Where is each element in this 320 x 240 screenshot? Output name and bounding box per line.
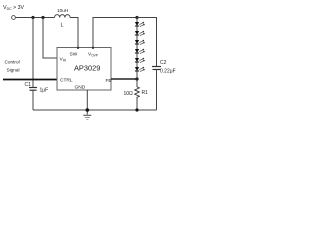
capacitor C2 — [152, 67, 161, 70]
control signal label — [5, 60, 20, 73]
junction FB node — [135, 77, 138, 80]
svg-text:CTRL: CTRL — [60, 78, 73, 84]
svg-text:FB: FB — [106, 78, 112, 84]
wire VIN branch to C1 — [32, 18, 34, 88]
C2 value label 0.22uF — [160, 69, 176, 75]
wire VOUT to C2 — [137, 18, 157, 67]
junction GND node — [86, 108, 90, 112]
R1 value label 10ohm — [124, 91, 134, 97]
svg-text:AP3029: AP3029 — [74, 64, 100, 73]
wire ground bus — [33, 109, 157, 111]
junction C1 branch node — [31, 16, 34, 19]
wire input to inductor — [16, 17, 55, 19]
svg-text:C1: C1 — [25, 82, 32, 88]
svg-text:SW: SW — [70, 52, 78, 58]
svg-text:Signal: Signal — [7, 68, 20, 73]
svg-text:C2: C2 — [160, 60, 167, 66]
pin label CTRL — [60, 78, 73, 84]
pin dot OVP — [92, 47, 94, 49]
svg-text:L: L — [61, 23, 64, 29]
L designator label — [61, 23, 64, 29]
L value label 10uH — [57, 8, 68, 13]
net label VDC > 3V — [3, 5, 24, 11]
wire VIN branch to VIN pin — [43, 18, 57, 59]
junction R1 ground node — [135, 108, 138, 111]
input terminal VDC — [12, 16, 16, 20]
svg-text:VOVP: VOVP — [88, 52, 98, 58]
wire CTRL control signal — [3, 79, 57, 81]
pin label SW — [70, 52, 78, 58]
wire C2 to ground bus — [156, 70, 158, 111]
svg-text:10Ω: 10Ω — [124, 91, 134, 97]
LED D5 — [135, 58, 145, 63]
wire inductor to SW pin — [70, 18, 78, 48]
LED D3 — [135, 40, 145, 45]
wire C1 to ground bus — [32, 90, 34, 110]
pin label VOVP — [88, 52, 98, 58]
wire FB to R1 — [111, 78, 137, 80]
svg-text:VDC > 3V: VDC > 3V — [3, 5, 24, 11]
pin label FB — [106, 78, 112, 84]
C2 designator label — [160, 60, 167, 66]
svg-text:R1: R1 — [142, 90, 149, 96]
wire LED chain — [136, 18, 138, 80]
pin dot SW — [77, 47, 79, 49]
wire OVP pin to LED anode — [93, 18, 137, 48]
svg-text:0.22μF: 0.22μF — [160, 69, 176, 75]
C1 value label 1uF — [40, 88, 49, 94]
pin label VIN — [60, 57, 67, 63]
junction VOUT node — [135, 16, 138, 19]
inductor L — [55, 15, 71, 18]
C1 designator label — [25, 82, 32, 88]
pin label GND — [75, 85, 86, 91]
junction VIN branch node — [41, 16, 44, 19]
resistor R1 — [135, 79, 140, 110]
R1 designator label — [142, 90, 149, 96]
svg-text:GND: GND — [75, 85, 86, 91]
LED D4 — [135, 49, 145, 54]
LED D2 — [135, 31, 145, 36]
LED D6 — [135, 67, 145, 72]
wire GND pin to ground — [86, 90, 88, 115]
ground — [83, 115, 91, 119]
svg-text:1μF: 1μF — [40, 88, 49, 94]
LED D1 — [135, 22, 145, 27]
IC U1 AP3029 body — [57, 48, 111, 91]
svg-text:10uH: 10uH — [57, 8, 68, 13]
IC name label AP3029 — [74, 64, 100, 73]
svg-text:VIN: VIN — [60, 57, 67, 63]
capacitor C1 — [29, 88, 37, 91]
svg-text:Control: Control — [5, 60, 20, 65]
